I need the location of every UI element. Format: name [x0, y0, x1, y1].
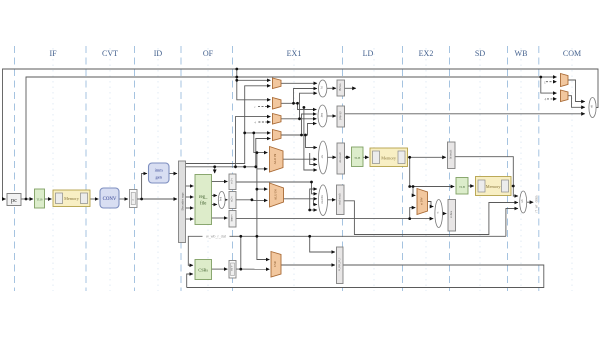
junction (236.8,77) — [235, 76, 238, 79]
junction (214.7,166.8) — [213, 165, 216, 168]
wire LD TLB to memory — [363, 156, 369, 158]
junction (236.8,69) — [235, 68, 238, 71]
svg-text:bj: bj — [321, 86, 324, 88]
svg-text:CSR: CSR — [273, 261, 277, 267]
CSR mux — [271, 252, 281, 278]
w_rep latch — [337, 247, 344, 284]
wire mux4 in2 — [256, 139, 271, 167]
EX1 mux 3 — [273, 114, 282, 125]
wire fwd to rs2 latch — [225, 199, 227, 201]
svg-text:Decoder regs: Decoder regs — [181, 192, 185, 211]
junction (513.3,186) — [512, 185, 515, 188]
wire mux4 in1 from W2 dot — [245, 132, 271, 134]
svg-text:rs2 v: rs2 v — [231, 196, 234, 202]
CSRs — [195, 260, 212, 280]
EX1 mux 2 — [273, 98, 282, 110]
decode regs pipeline register — [179, 161, 186, 243]
wire mux2 out to oval2 in1 — [294, 103, 317, 109]
CSR out latch — [229, 261, 236, 279]
junction (256.9,189.1) — [256, 188, 259, 191]
junction (309.7,210) — [308, 209, 311, 212]
wire W1 extension to mux4 in2 tap — [236, 166, 256, 168]
wire w_rep latch out bottom loop — [187, 265, 544, 288]
wire mux3 out to oval2 in3 — [281, 118, 316, 120]
svg-text:st DW: st DW — [419, 197, 423, 205]
EX1 latch jmp tgt — [337, 106, 345, 127]
wire SD TLB2 to memory2 — [468, 185, 474, 187]
svg-text:gen: gen — [156, 175, 163, 180]
wire W1 branch into reg file top — [214, 167, 216, 173]
wire OF latch1 long to oval4 — [236, 182, 317, 194]
svg-text:mul result: mul result — [338, 193, 341, 204]
svg-text:LD: LD — [363, 49, 374, 58]
wire branch to COM mux B — [541, 77, 557, 93]
wire decode top W2 up to mux1 in2 — [186, 133, 245, 164]
wire oval3 in3 from bus b4 — [304, 107, 317, 170]
wire memory2 out junction — [511, 185, 513, 187]
wire bottom feedback to CSRs in2 — [187, 274, 193, 288]
stage boundary dashed lines — [15, 46, 539, 291]
EX1 oval jump — [318, 105, 327, 127]
IF TLB — [35, 189, 45, 208]
wire EX2 mux out to oval — [428, 202, 434, 207]
svg-text:wb: wb — [521, 199, 524, 203]
svg-text:st data: st data — [450, 210, 453, 218]
wire big mux2 out to oval4 in2 — [284, 198, 317, 200]
CVT out latch c — [130, 190, 138, 208]
EX1 mux 4 — [273, 130, 282, 141]
EX1 latch alu result — [337, 143, 345, 174]
svg-text:Memory: Memory — [486, 184, 502, 189]
svg-text:fwd: fwd — [220, 196, 223, 201]
svg-text:ALU IN: ALU IN — [273, 153, 277, 164]
svg-text:mul/div: mul/div — [321, 194, 324, 203]
junction (409.7,186.5) — [408, 185, 411, 188]
svg-text:pc: pc — [11, 197, 17, 204]
wire mux3 branch up to oval1 in3 — [300, 93, 317, 119]
WB oval — [520, 191, 527, 213]
svg-text:rs1 v: rs1 v — [231, 177, 234, 183]
junction (244.7,166.8) — [243, 165, 246, 168]
svg-text:ID: ID — [154, 49, 163, 58]
svg-text:st: st — [437, 211, 440, 213]
wire big mux1 in2 — [257, 168, 268, 170]
junction (305.5,135) — [304, 134, 307, 137]
junction (236.8,80.3) — [235, 79, 238, 82]
wire big mux1 out to oval3 in2 — [283, 158, 317, 160]
CONV unit — [100, 188, 119, 208]
junction (293.5,103.3) — [292, 102, 295, 105]
wire EX2 mux in2 branch — [410, 208, 416, 219]
wire mux4 out to oval3 in1 — [281, 135, 317, 148]
svg-text:rdt: rdt — [591, 105, 594, 108]
junction (309.7,236.3) — [308, 235, 311, 238]
svg-text:SD: SD — [475, 49, 485, 58]
svg-text:CVT: CVT — [102, 49, 118, 58]
wire oval3 to latch3 — [328, 156, 336, 158]
junction (409.7,218.6) — [408, 217, 411, 220]
fwd oval — [218, 192, 225, 209]
svg-text:imm: imm — [155, 168, 164, 173]
wire big mux1 in1 chain — [254, 133, 268, 153]
wire writeback net right end into WB oval in3 — [506, 209, 518, 237]
wire LD vertical bus down — [409, 157, 411, 186]
wire mux1 in2 from W2 vertical — [245, 86, 271, 133]
svg-text:Memory: Memory — [381, 155, 397, 160]
OF latch rs2 — [229, 192, 236, 209]
svg-text:Memory: Memory — [64, 196, 80, 201]
label w_wb_r_dat — [203, 232, 230, 238]
wire oval2 to latch2 — [327, 115, 336, 117]
svg-text:rf_wr_data: rf_wr_data — [535, 196, 539, 213]
wire store data from OF imm latch to EX2 oval — [236, 218, 433, 220]
wire outer redirect loop — [3, 69, 599, 199]
svg-text:IF: IF — [49, 49, 57, 58]
wire LD memory to LD latch — [408, 156, 446, 158]
svg-text:TLB: TLB — [459, 185, 465, 189]
wire EX1 vertical v1 from top loops — [237, 69, 271, 80]
stage labels — [49, 49, 581, 58]
wire latch1 out stub — [345, 87, 356, 89]
svg-text:4: 4 — [545, 98, 547, 102]
COM oval — [589, 98, 596, 118]
wire LD latch around memory2 to WB oval in1 — [455, 157, 518, 196]
wire writeback net left end into CSRs — [188, 236, 506, 265]
svg-text:imm v: imm v — [231, 214, 234, 222]
wire to SD TLB2 — [410, 186, 455, 188]
svg-text:jmp: jmp — [321, 112, 324, 118]
svg-text:OF: OF — [203, 49, 214, 58]
svg-text:WB: WB — [515, 49, 528, 58]
junction (251.9,199.8) — [251, 198, 254, 201]
wire constant stub 4 to mux3 — [258, 121, 270, 123]
junction (26,199) — [25, 198, 28, 201]
COM mux A — [561, 74, 569, 87]
junction (540.8,77) — [539, 76, 542, 79]
wire oval4 in4 — [310, 209, 317, 211]
wire COM muxA out to oval in1 — [568, 80, 585, 102]
wire to imm gen — [142, 174, 147, 200]
junction (240.8,236.3) — [239, 235, 242, 238]
junction (141.6,199) — [140, 198, 143, 201]
svg-text:TLB: TLB — [36, 198, 42, 202]
EX1 big mux ALU in A — [270, 147, 284, 173]
EX1 oval BJ — [319, 80, 327, 97]
svg-text:BJ res: BJ res — [339, 84, 342, 91]
EX1 latch BJ res — [337, 80, 345, 96]
junction (240.8,269.1) — [239, 268, 242, 271]
junction (299.5,118.8) — [298, 117, 301, 120]
junction (303.9,107.4) — [303, 106, 306, 109]
IF Memory — [53, 190, 90, 207]
pc register — [7, 194, 21, 206]
svg-text:reg_: reg_ — [199, 195, 208, 200]
wire constant stub c to mux2 — [258, 105, 270, 107]
junction (256.9,152.6) — [256, 151, 259, 154]
svg-text:4: 4 — [254, 121, 256, 125]
junction (347,157.3) — [346, 156, 349, 159]
svg-text:csr v: csr v — [231, 265, 234, 271]
EX1 big mux ALU in B — [270, 183, 284, 207]
svg-text:w_wb_r_dat: w_wb_r_dat — [206, 234, 226, 238]
stage center dotted lines — [53, 48, 572, 291]
wire CSRs to csr out latch — [212, 268, 228, 270]
imm gen — [149, 163, 170, 183]
reg file — [195, 175, 212, 225]
wire COM constant stubs — [546, 81, 557, 83]
svg-text:ld result: ld result — [449, 150, 452, 159]
EX2 store mux — [417, 189, 428, 215]
junction (409.7,157.3) — [408, 156, 411, 159]
svg-text:c: c — [544, 81, 546, 85]
junction (311.5,182) — [310, 181, 313, 184]
wire oval1 to latch1 — [327, 87, 336, 89]
svg-text:CONV: CONV — [103, 197, 117, 202]
wire oval2 in4 — [306, 124, 317, 136]
wire decode regs to reg file — [186, 185, 194, 187]
wire reg file to csr latch — [212, 217, 228, 219]
wire oval4 in3 — [314, 199, 317, 205]
junction (301.5,135) — [300, 134, 303, 137]
LD TLB — [352, 147, 364, 167]
wire inner pc loop top — [26, 77, 557, 199]
EX1 oval alu — [319, 141, 328, 174]
junction (413,186.5) — [412, 185, 415, 188]
wire x309 vertical to w_rep latch in2 — [310, 236, 335, 252]
svg-text:file: file — [200, 202, 206, 207]
SD TLB — [456, 178, 468, 195]
WB Memory — [476, 177, 512, 196]
wire EX2 oval to latch — [443, 213, 447, 215]
junction (253.8,132.9) — [252, 132, 255, 135]
wire reg file to rs1 latch — [212, 181, 228, 183]
EX1 latch mul result — [337, 185, 345, 215]
wire WB oval out — [527, 201, 534, 203]
wire EX1 latch4 out down to WB oval in2 — [344, 201, 518, 235]
wire mux2 out jog up to oval1 in2 — [281, 89, 317, 104]
wire CSR mux out to w_rep latch — [281, 264, 335, 266]
svg-text:COM: COM — [563, 49, 581, 58]
wire decode top W1 to mux3 — [186, 117, 271, 167]
svg-text:CSRs: CSRs — [198, 267, 208, 272]
EX1 mux 1 — [273, 78, 282, 89]
wire mux1 out to oval1 — [281, 82, 317, 84]
OF latch imm — [229, 211, 236, 228]
EX2 oval — [435, 200, 443, 228]
junction (244.7,132.9) — [243, 132, 246, 135]
EX2 latch — [448, 200, 456, 232]
svg-text:EX1: EX1 — [287, 49, 302, 58]
junction (235.5,166.8) — [234, 165, 237, 168]
wire v3 csr bus — [257, 153, 270, 260]
LD Memory — [370, 148, 408, 167]
wire imm gen to decode regs — [169, 173, 177, 175]
wire main fetch row — [21, 198, 33, 200]
LD result latch — [448, 142, 456, 169]
EX1 oval muldiv — [319, 185, 328, 216]
junction (255.8,166.8) — [254, 165, 257, 168]
wire writeback branch down to csr mux feed — [240, 236, 242, 269]
wire EX2 mux in1 — [413, 187, 415, 196]
junction (297.5,103.3) — [296, 102, 299, 105]
svg-text:alu: alu — [321, 154, 324, 158]
wire reg file to fwd oval — [212, 195, 217, 197]
wire OF latch2 to big mux2 in2 — [236, 199, 267, 202]
svg-text:ALU IN: ALU IN — [274, 189, 278, 200]
wire latch3 alu result to LD TLB — [345, 156, 351, 158]
wire latch2 long jump target to COM oval — [345, 113, 585, 115]
wire COM muxB out to oval in2 — [568, 96, 585, 108]
svg-text:TLB: TLB — [354, 156, 360, 160]
svg-text:w_rep_pc_t: w_rep_pc_t — [338, 257, 341, 270]
svg-text:alu result: alu result — [339, 152, 342, 163]
svg-text:jmp tgt: jmp tgt — [339, 111, 342, 120]
OF latch rs1 — [229, 174, 236, 190]
svg-text:EX2: EX2 — [419, 49, 434, 58]
wire oval2 in2 from bus — [302, 114, 317, 135]
wire big mux2 in1 — [257, 188, 268, 190]
COM mux B — [561, 90, 569, 102]
junction (256.9,236.3) — [256, 235, 259, 238]
svg-text:c: c — [254, 105, 256, 109]
wire csr latch to CSR mux in2 — [236, 268, 269, 270]
wire oval4 to latch4 — [328, 199, 336, 201]
wire oval3 in extra — [310, 153, 317, 165]
